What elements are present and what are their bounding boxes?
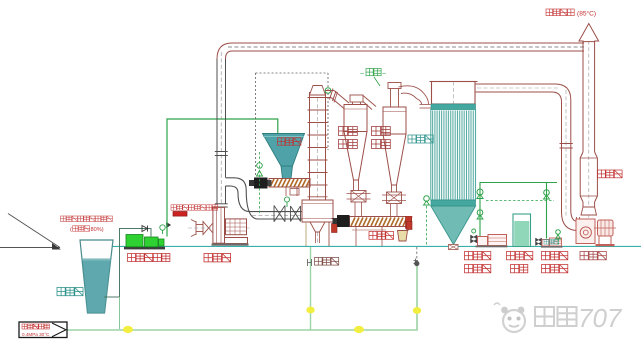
fan suction vertical pipe: [560, 90, 573, 218]
tower bottom legs: [306, 222, 329, 246]
main vertical gas pipe: [217, 52, 226, 204]
induced draft fan scroll: [576, 219, 595, 244]
cyclone separator 2 body: [383, 107, 406, 134]
top gas pipe horizontal run: [228, 43, 584, 51]
blower base: [212, 238, 249, 246]
pump discharge ball valve: [160, 225, 165, 234]
svg-text:(: (: [70, 227, 72, 233]
label induced draft fan: [580, 252, 606, 260]
tower vent circle: [325, 88, 331, 94]
cyclone separator 1 body: [344, 105, 367, 132]
feeder enclosure dashed box: [256, 73, 329, 177]
sludge transfer pump head: [159, 239, 165, 246]
discharge check valve: [167, 223, 171, 228]
induced draft fan base: [596, 236, 615, 246]
pump suction line: [104, 229, 151, 298]
label drain port: [544, 240, 559, 245]
fan suction bottom elbow: [562, 210, 580, 235]
label waste water sludge source: [61, 216, 113, 222]
feeder control valve: [257, 152, 263, 215]
sludge feed line: [167, 119, 278, 237]
blower inlet bell: [191, 220, 203, 237]
valve on riser 2: [477, 210, 483, 219]
feeder support: [286, 187, 299, 196]
svg-text:0.4MPa 30°C: 0.4MPa 30°C: [22, 332, 50, 337]
blower fan scroll housing: [213, 207, 225, 243]
tower top cap: [310, 86, 326, 96]
absorbent dashed line: [486, 199, 554, 201]
node glow dots: [123, 307, 421, 334]
svg-text:(85°C): (85°C): [577, 10, 596, 18]
cone outlet valve: [449, 245, 459, 250]
exhaust arrow: [579, 24, 599, 42]
svg-text:~: ~: [382, 71, 386, 78]
tank drain plant valve: [556, 230, 561, 246]
cyclone 1 vortex tube: [350, 95, 376, 110]
sludge pool water fill: [82, 259, 110, 313]
blower inlet valve: [203, 222, 214, 235]
label drying tower: [308, 258, 419, 267]
label absorbent circulation pump: [465, 252, 491, 273]
sludge transfer pump motor: [126, 235, 143, 247]
suction line to bottom line: [119, 297, 121, 329]
cyclone 2 vortex tube: [388, 83, 401, 108]
purification tower cone: [431, 206, 476, 245]
cyclone 2 cone: [383, 134, 406, 185]
watermark panda logo: [494, 303, 525, 332]
product bucket: [398, 227, 409, 242]
feeder hopper neck: [281, 166, 293, 179]
label sludge transfer pump: [128, 254, 170, 262]
label primary separation: [339, 127, 358, 149]
svg-text:707: 707: [578, 303, 623, 333]
label discharger: [369, 232, 394, 240]
label absorbent storage tank: [507, 252, 533, 273]
dashed riser to purification tower drain: [416, 247, 418, 261]
sludge pool tank: [80, 240, 113, 313]
cyclone 2 dip tube: [392, 185, 397, 192]
cyclone 2 outlet elbow to purification tower: [399, 86, 432, 108]
equipment ground baseline: [112, 245, 641, 247]
red drain valve: [406, 217, 413, 230]
fan outlet cone: [581, 207, 597, 215]
top pipe elbow: [217, 43, 232, 59]
tower outlet pipe: [326, 89, 350, 109]
blower motor: [226, 219, 247, 235]
watermark text 化工707: [535, 303, 623, 333]
purification tower top box: [430, 82, 478, 249]
purification tower outlet pipe: [476, 84, 571, 102]
label muffler: [598, 170, 623, 178]
discharge screw motor: [333, 215, 350, 227]
svg-text:80%): 80%): [91, 227, 104, 233]
label purification tower: [408, 135, 433, 143]
absorbent circulation pump: [476, 235, 508, 248]
valve on feed drop: [544, 190, 550, 199]
ground line left: [0, 247, 60, 249]
chute junction wedge: [52, 243, 61, 250]
feeder hopper funnel: [263, 134, 305, 167]
process water inlet tag box: [19, 322, 67, 338]
drain valve: [424, 196, 430, 205]
valve under feeder: [284, 197, 289, 207]
junction dot: [414, 261, 419, 266]
valve on riser 1: [477, 189, 483, 199]
feeder screw conveyor: [269, 179, 310, 188]
svg-text:~: ~: [360, 71, 364, 78]
recirculation duct branch: [226, 178, 259, 219]
label sludge pool: [57, 288, 83, 296]
purification tower bag section: [431, 110, 476, 201]
check valve on suction: [142, 226, 148, 232]
label flue gas green: [360, 69, 386, 87]
muffler: [580, 152, 597, 207]
absorbent storage tank: [513, 214, 531, 247]
sludge transfer pump base: [124, 247, 165, 250]
absorbent supply green line: [480, 183, 557, 237]
discharge screw conveyor: [350, 217, 412, 227]
label exhaust gas: [546, 9, 596, 18]
label secondary separation: [372, 127, 391, 149]
tower bottom cone: [310, 222, 325, 232]
exhaust stack: [583, 28, 595, 218]
duct butterfly valve 1: [274, 206, 285, 222]
sludge transfer pump body: [145, 237, 159, 247]
tower side red valve: [332, 219, 338, 233]
cyclone 1 dip tube: [354, 180, 359, 191]
rotary airlock 1: [347, 191, 371, 217]
boiler flue gas marker box: [173, 212, 187, 217]
feeder drive motor: [249, 178, 272, 189]
absorbent feed drop line: [546, 183, 548, 239]
discharge screw legs: [352, 227, 386, 247]
label absorbent feed pump: [542, 252, 568, 273]
cyclone 1 cone: [344, 132, 367, 181]
purification tower lower teal band: [431, 200, 476, 206]
drying tower column: [310, 85, 326, 243]
purification tower upper teal band: [431, 104, 476, 110]
process water bottom line: [67, 264, 417, 331]
duct butterfly valve 2: [291, 206, 301, 222]
label blower: [204, 254, 231, 262]
blower centerline: [188, 227, 250, 229]
discharge screw end cap: [406, 217, 412, 229]
absorbent circulation pump suction valve: [471, 229, 478, 243]
absorbent feed pump: [536, 238, 563, 248]
label moisture content: [70, 226, 104, 233]
tower bottom box: [302, 200, 333, 222]
label feeder: [278, 138, 301, 145]
purification tower drain dashed line: [426, 206, 428, 246]
tower inlet duct: [250, 212, 302, 219]
induced draft fan motor: [594, 220, 616, 236]
vertical pipe flanges: [215, 152, 228, 208]
label boiler flue gas: [171, 205, 218, 210]
rotary airlock 2: [382, 192, 406, 216]
sludge inlet chute: [8, 214, 60, 248]
vertical green line below drying tower: [310, 247, 312, 331]
tower flanges: [308, 98, 328, 197]
